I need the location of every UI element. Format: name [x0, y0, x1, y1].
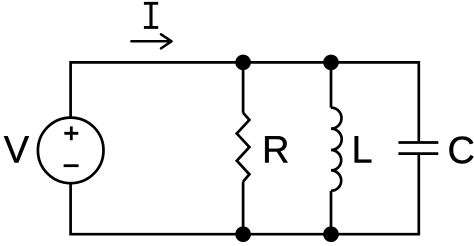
voltage source minus sign [64, 164, 79, 167]
voltage source V circle [38, 118, 104, 184]
svg-text:R: R [262, 130, 289, 172]
wire resistor top stub [242, 62, 245, 112]
wire inductor top stub [330, 62, 333, 107]
wire resistor bottom stub [242, 182, 245, 235]
current label I (serif capital) [144, 3, 158, 27]
node dot bottom right (L junction) [323, 226, 339, 242]
svg-text:L: L [352, 130, 373, 172]
inductor L [331, 108, 342, 191]
capacitor C bottom plate [398, 152, 438, 155]
capacitor C top plate [398, 141, 438, 144]
current arrow [131, 34, 171, 48]
node dot bottom left (R junction) [235, 226, 251, 242]
svg-text:V: V [4, 130, 30, 172]
node dot top left (R junction) [235, 55, 251, 71]
node dot top right (L junction) [323, 55, 339, 71]
wire bottom net: source bottom, bottom rail, up to capacitor [71, 155, 419, 234]
resistor R [237, 113, 250, 182]
svg-text:C: C [448, 130, 474, 172]
voltage source plus sign [64, 126, 78, 140]
wire top net: source top, top rail, down to capacitor [71, 62, 419, 141]
wire inductor bottom stub [330, 191, 333, 234]
